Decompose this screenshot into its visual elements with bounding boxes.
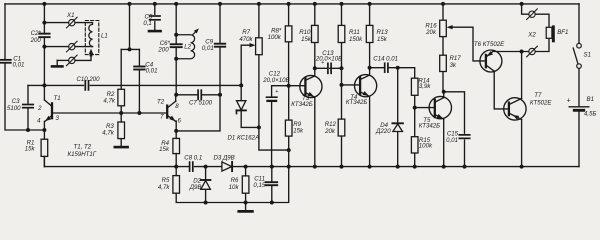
svg-text:15k: 15k (377, 36, 388, 43)
svg-text:15k: 15k (159, 146, 170, 153)
svg-text:C10 200: C10 200 (77, 76, 101, 83)
svg-text:10k: 10k (229, 184, 240, 191)
svg-text:15k: 15k (293, 128, 304, 135)
svg-text:100k: 100k (419, 142, 433, 149)
svg-text:0,01: 0,01 (146, 68, 158, 75)
svg-text:20,0×10В: 20,0×10В (315, 56, 342, 63)
svg-text:3k: 3k (450, 62, 457, 69)
svg-text:X1: X1 (66, 12, 74, 19)
svg-text:S1: S1 (584, 51, 591, 58)
svg-text:Д9В: Д9В (189, 184, 202, 191)
svg-text:15k: 15k (301, 36, 312, 43)
svg-text:15k: 15k (25, 145, 36, 152)
svg-text:0,1: 0,1 (143, 20, 151, 27)
svg-text:B1: B1 (587, 96, 594, 103)
svg-text:BF1: BF1 (557, 29, 568, 36)
svg-text:0,15: 0,15 (253, 182, 265, 189)
svg-text:4,7k: 4,7k (102, 130, 114, 137)
svg-text:T6 КТ502Е: T6 КТ502Е (474, 41, 505, 48)
svg-text:C7 5100: C7 5100 (189, 99, 213, 106)
svg-text:4,5Б: 4,5Б (584, 111, 596, 118)
svg-text:C14 0,01: C14 0,01 (373, 56, 398, 63)
svg-text:T1: T1 (54, 95, 61, 102)
svg-text:L1: L1 (101, 33, 108, 40)
svg-text:5100: 5100 (7, 105, 21, 112)
svg-text:3,9k: 3,9k (419, 83, 431, 90)
svg-text:T7: T7 (534, 92, 542, 99)
svg-text:2: 2 (37, 105, 42, 112)
svg-text:0,01: 0,01 (13, 61, 25, 68)
svg-text:+: + (275, 89, 278, 95)
svg-text:+: + (321, 60, 324, 66)
svg-text:L2: L2 (184, 43, 191, 50)
svg-text:20,0×10В: 20,0×10В (262, 77, 289, 84)
svg-text:470k: 470k (239, 36, 253, 43)
svg-text:КТ342Б: КТ342Б (291, 101, 312, 108)
svg-text:КТ502Е: КТ502Е (530, 100, 552, 107)
svg-text:0,01: 0,01 (446, 137, 458, 144)
svg-text:Д220: Д220 (375, 128, 391, 135)
svg-text:20k: 20k (425, 29, 437, 36)
svg-text:X2: X2 (527, 31, 536, 38)
svg-text:20k: 20k (324, 128, 336, 135)
svg-text:4,7k: 4,7k (158, 184, 170, 191)
svg-text:T1, T2: T1, T2 (74, 143, 92, 150)
svg-text:T2: T2 (157, 99, 165, 106)
svg-text:D1 КС162А: D1 КС162А (228, 135, 260, 142)
svg-text:КТ342Б: КТ342Б (419, 123, 440, 130)
svg-text:R6: R6 (231, 177, 239, 184)
svg-text:D3 Д9В: D3 Д9В (214, 154, 235, 161)
svg-text:К159НТ1Г: К159НТ1Г (68, 151, 97, 158)
svg-text:200: 200 (157, 46, 169, 53)
svg-text:150k: 150k (349, 36, 363, 43)
svg-text:4,7k: 4,7k (103, 97, 115, 104)
svg-text:+: + (567, 97, 571, 104)
svg-text:100k: 100k (268, 34, 282, 41)
svg-text:C8 0,1: C8 0,1 (184, 155, 202, 162)
svg-text:200: 200 (30, 37, 42, 44)
svg-text:КТ342Б: КТ342Б (346, 99, 367, 106)
svg-text:0,01: 0,01 (202, 45, 214, 52)
